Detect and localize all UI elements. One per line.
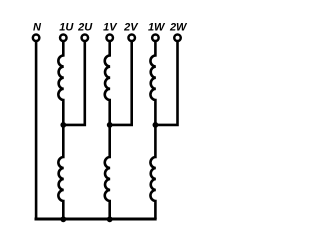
svg-text:2V: 2V: [123, 22, 139, 34]
svg-text:1U: 1U: [59, 22, 74, 34]
svg-text:N: N: [33, 22, 42, 34]
svg-text:2W: 2W: [169, 22, 188, 34]
svg-text:2U: 2U: [77, 22, 93, 34]
svg-text:1V: 1V: [103, 22, 118, 34]
svg-text:1W: 1W: [148, 22, 166, 34]
